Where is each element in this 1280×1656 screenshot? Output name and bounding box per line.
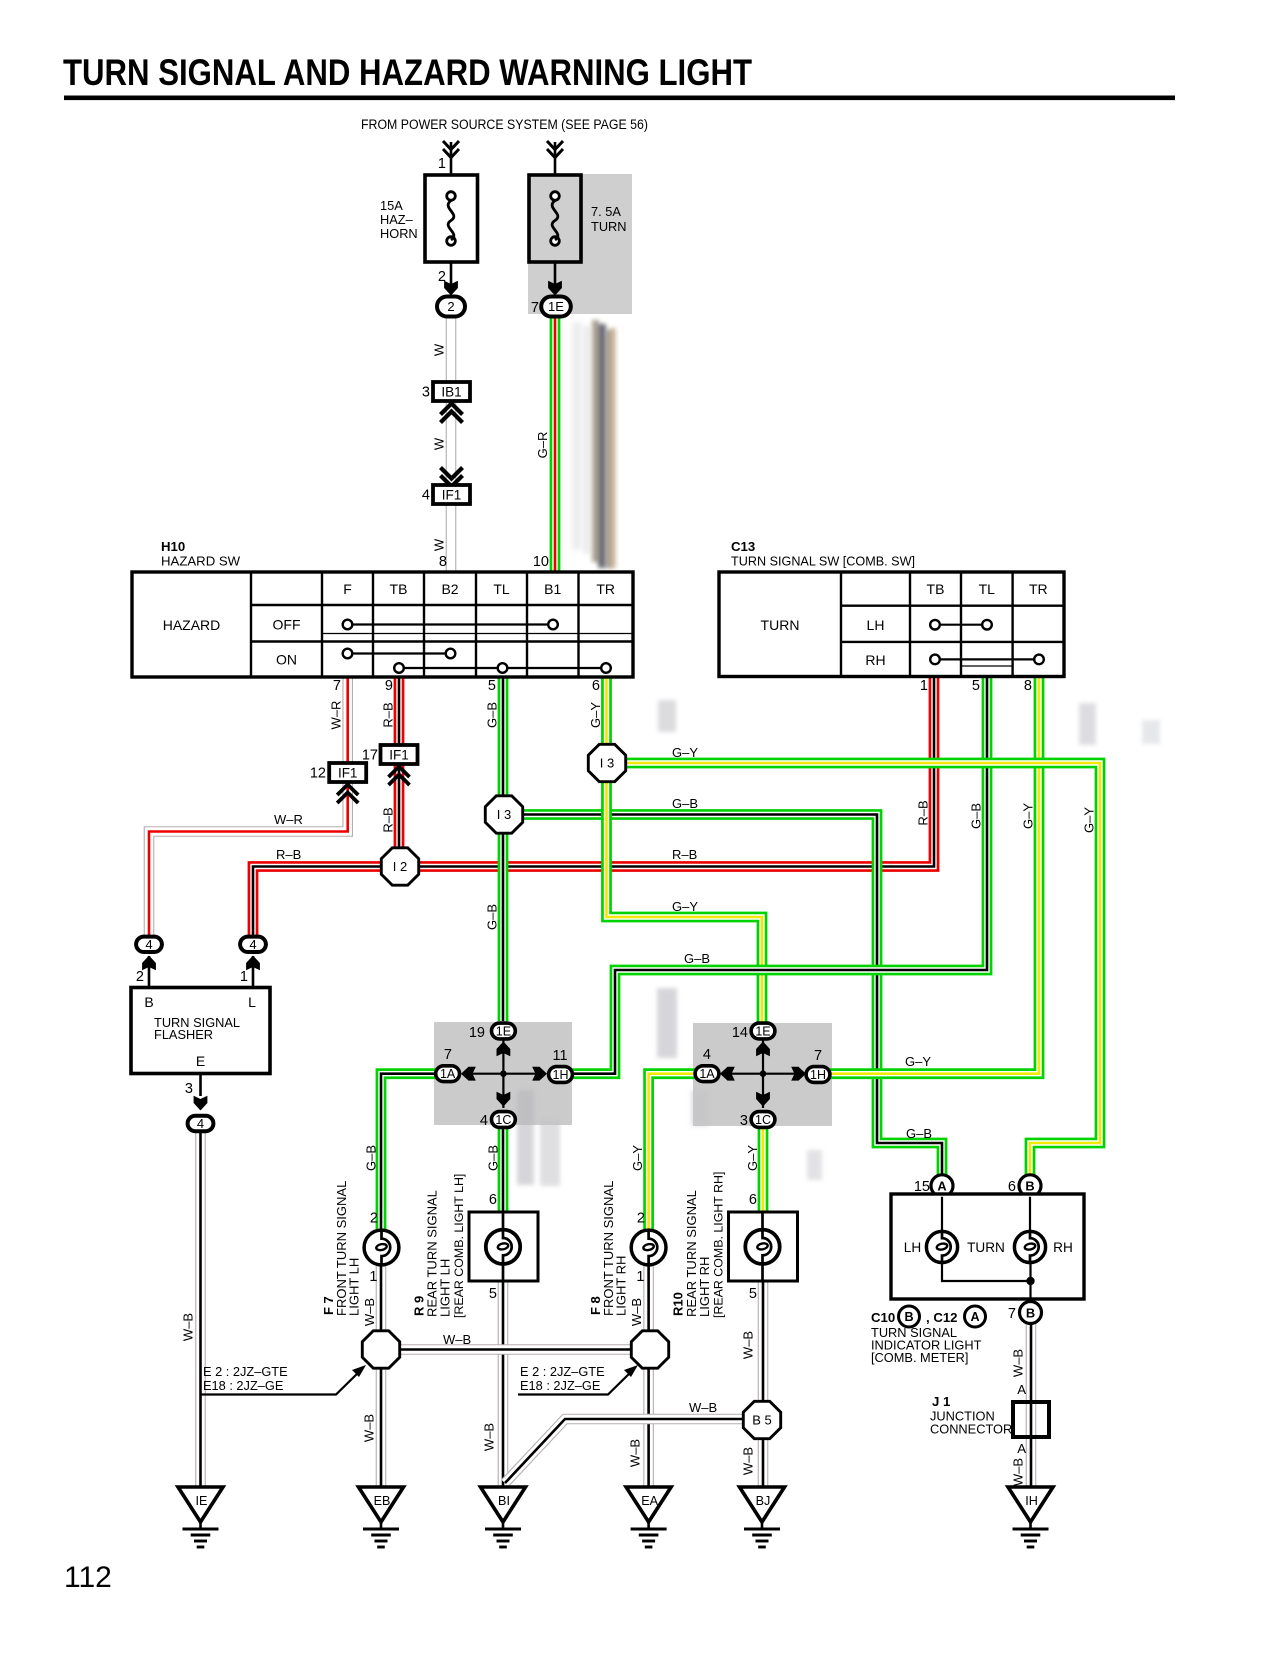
svg-text:7: 7 — [814, 1048, 822, 1064]
turn LH contact TB-TL — [935, 624, 987, 626]
svg-text:OFF: OFF — [273, 617, 301, 633]
svg-text:4: 4 — [197, 1116, 204, 1131]
svg-text:BI: BI — [498, 1494, 510, 1508]
svg-text:R–B: R–B — [276, 847, 301, 862]
svg-text:4: 4 — [422, 488, 430, 504]
ground IH — [1008, 1487, 1053, 1547]
junction I3 on G-B — [485, 796, 522, 833]
svg-text:EA: EA — [641, 1494, 658, 1508]
svg-text:W–B: W–B — [1011, 1349, 1026, 1377]
wire W-B rear turn LH to ground BI — [498, 1281, 509, 1488]
wire R-B hazard switch pin 9 to junction I2 — [394, 677, 405, 867]
svg-text:C13: C13 — [731, 539, 755, 554]
chevrons below IB1 — [441, 404, 463, 415]
svg-text:2: 2 — [447, 299, 454, 314]
hazard switch H10 table — [132, 572, 633, 677]
svg-text:14: 14 — [732, 1025, 748, 1041]
svg-text:B1: B1 — [544, 581, 561, 597]
svg-text:G–B: G–B — [364, 1145, 379, 1171]
svg-text:7. 5A: 7. 5A — [591, 204, 621, 219]
wire G-Y hazard TR through I3 down to connector 1E (right block) — [607, 677, 763, 1022]
ground connector octagon below F8 — [631, 1331, 668, 1368]
junction I2 on R-B — [381, 848, 418, 885]
wire W-B front turn RH to ground EA — [643, 1264, 654, 1488]
svg-text:LIGHT RH: LIGHT RH — [697, 1257, 712, 1317]
wire G-B connector 1H to turn signal switch TL pin 5 — [561, 677, 987, 1074]
rear turn signal light RH R10 — [671, 1172, 798, 1318]
svg-text:J 1: J 1 — [932, 1394, 950, 1409]
svg-text:G–B: G–B — [969, 803, 984, 829]
svg-text:B2: B2 — [441, 581, 458, 597]
connector oval 1E left block pin 19 — [492, 1023, 516, 1039]
meter caption C10 B , C12 A — [871, 1306, 986, 1327]
svg-text:IF1: IF1 — [389, 747, 409, 762]
svg-text:IF1: IF1 — [338, 765, 358, 780]
connector oval 1E right block pin 14 — [751, 1023, 775, 1039]
svg-text:W: W — [432, 437, 447, 450]
engine code note right — [518, 1364, 638, 1395]
rear turn signal light LH R9 — [412, 1174, 539, 1318]
svg-text:6: 6 — [592, 678, 600, 694]
svg-text:TURN: TURN — [761, 617, 800, 633]
feed arrow into fuse TURN — [547, 141, 563, 175]
fuse 15A HAZ-HORN — [380, 156, 478, 262]
svg-text:EB: EB — [374, 1494, 391, 1508]
svg-text:12: 12 — [310, 766, 326, 782]
svg-text:TURN SIGNAL SW [COMB. SW]: TURN SIGNAL SW [COMB. SW] — [731, 554, 915, 569]
wire G-Y connector 1A to front turn signal light RH — [649, 1074, 707, 1231]
svg-text:LIGHT RH: LIGHT RH — [614, 1256, 629, 1316]
svg-text:1: 1 — [438, 156, 446, 172]
connector IF1 pin 4 — [422, 485, 470, 504]
svg-text:HAZARD SW: HAZARD SW — [161, 554, 241, 569]
svg-text:11: 11 — [552, 1048, 567, 1064]
wire G-R from fuse TURN to hazard switch pin 10 — [550, 305, 561, 572]
svg-text:I 2: I 2 — [393, 859, 407, 874]
svg-text:W–B: W–B — [362, 1298, 377, 1326]
svg-text:W–B: W–B — [741, 1447, 756, 1475]
svg-text:FROM POWER SOURCE SYSTEM (SEE: FROM POWER SOURCE SYSTEM (SEE PAGE 56) — [361, 117, 648, 132]
junction connector J1 — [930, 1394, 1049, 1437]
wire W-B linking engine ground connectors — [393, 1344, 638, 1355]
connector block right cross — [720, 1040, 806, 1108]
svg-text:8: 8 — [1024, 678, 1032, 694]
svg-text:1E: 1E — [755, 1025, 770, 1039]
svg-text:G–B: G–B — [684, 951, 710, 966]
gray highlight behind 7.5A TURN fuse — [528, 174, 632, 314]
wire G-Y connector 1H to turn signal switch TR pin 8 — [818, 677, 1039, 1074]
svg-text:4: 4 — [480, 1113, 488, 1129]
svg-text:LIGHT LH: LIGHT LH — [438, 1259, 453, 1317]
svg-text:R–B: R–B — [916, 800, 931, 825]
svg-text:A: A — [970, 1310, 979, 1324]
connector oval 1C left block pin 4 — [492, 1112, 516, 1128]
svg-text:R–B: R–B — [381, 807, 396, 832]
wire G-Y junction I3 to combination meter pin B — [614, 763, 1100, 1180]
svg-text:E18 : 2JZ–GE: E18 : 2JZ–GE — [520, 1378, 600, 1393]
fuse TURN output lead pin 7 — [531, 262, 562, 316]
svg-text:4: 4 — [703, 1047, 711, 1063]
svg-text:TURN: TURN — [591, 219, 627, 234]
connector IF1 pin 17 — [362, 745, 418, 764]
svg-text:B: B — [904, 1310, 913, 1324]
svg-text:G–B: G–B — [485, 904, 500, 930]
svg-text:G–Y: G–Y — [672, 745, 698, 760]
svg-text:W–B: W–B — [1011, 1458, 1026, 1486]
svg-text:E18 : 2JZ–GE: E18 : 2JZ–GE — [203, 1378, 283, 1393]
svg-text:1E: 1E — [548, 299, 564, 314]
connector oval 2 — [437, 297, 465, 317]
flasher pin E lead to oval 4 — [185, 1074, 207, 1111]
svg-text:IF1: IF1 — [442, 487, 462, 502]
engine code note left — [201, 1364, 366, 1395]
connector block left cross — [461, 1040, 547, 1108]
junction I3 on G-Y — [588, 744, 625, 781]
svg-text:W: W — [432, 343, 447, 356]
svg-text:W–B: W–B — [629, 1298, 644, 1326]
svg-text:W–R: W–R — [274, 812, 303, 827]
ground BJ — [740, 1487, 785, 1547]
fuse 7.5A TURN — [529, 175, 627, 262]
svg-text:TB: TB — [927, 581, 945, 597]
wire W-B combination meter pin B to ground IH — [1026, 1322, 1037, 1488]
svg-text:G–Y: G–Y — [672, 899, 698, 914]
svg-text:[REAR COMB. LIGHT LH]: [REAR COMB. LIGHT LH] — [452, 1174, 466, 1318]
svg-text:1H: 1H — [553, 1068, 569, 1082]
svg-text:TB: TB — [390, 581, 408, 597]
combination meter box with turn indicator lights — [891, 1194, 1084, 1310]
connector oval 4 flasher pin L — [240, 956, 260, 988]
svg-text:3: 3 — [185, 1081, 193, 1097]
svg-text:LIGHT LH: LIGHT LH — [347, 1258, 362, 1316]
svg-text:1: 1 — [920, 678, 928, 694]
svg-text:LH: LH — [904, 1240, 921, 1255]
svg-text:HORN: HORN — [380, 226, 418, 241]
svg-text:LH: LH — [867, 617, 885, 633]
rear lamp R9 box fill — [469, 1212, 538, 1281]
svg-text:G–Y: G–Y — [745, 1145, 760, 1171]
rear lamp R10 box fill — [729, 1212, 798, 1281]
svg-text:C10: C10 — [871, 1310, 895, 1325]
wire W-R hazard switch pin 7 to flasher connector — [149, 677, 348, 940]
svg-text:G–B: G–B — [486, 1145, 501, 1171]
svg-text:IH: IH — [1025, 1494, 1038, 1508]
svg-text:F: F — [343, 581, 352, 597]
svg-text:B: B — [1025, 1179, 1034, 1194]
svg-text:W: W — [432, 538, 447, 551]
svg-text:G–Y: G–Y — [630, 1145, 645, 1171]
svg-text:5: 5 — [488, 678, 496, 694]
svg-text:TURN SIGNAL AND HAZARD WARNING: TURN SIGNAL AND HAZARD WARNING LIGHT — [63, 51, 752, 93]
svg-text:19: 19 — [469, 1025, 485, 1041]
svg-text:10: 10 — [533, 554, 549, 570]
wire G-Y connector 1C to rear turn signal light RH — [758, 1117, 769, 1212]
svg-text:TL: TL — [493, 581, 510, 597]
svg-text:1: 1 — [369, 1269, 377, 1285]
meter pin 7 B below — [1008, 1302, 1042, 1324]
chevrons above IF1 — [441, 468, 463, 479]
turn signal switch C13 table — [719, 572, 1064, 677]
svg-text:E: E — [196, 1053, 205, 1069]
wire W-B rear turn RH through B5 to ground BJ — [758, 1281, 769, 1488]
svg-text:W–R: W–R — [329, 701, 344, 730]
connector oval 1E top — [541, 297, 571, 317]
svg-text:1E: 1E — [496, 1025, 511, 1039]
svg-text:RH: RH — [865, 652, 885, 668]
meter pin 6 B — [1008, 1175, 1041, 1197]
svg-text:7: 7 — [1008, 1306, 1016, 1322]
junction connector B5 — [743, 1401, 780, 1438]
svg-text:5: 5 — [489, 1286, 497, 1302]
svg-text:G–Y: G–Y — [1082, 807, 1097, 833]
svg-text:BJ: BJ — [756, 1494, 771, 1508]
svg-text:B: B — [1026, 1305, 1035, 1320]
svg-text:I 3: I 3 — [600, 756, 614, 771]
svg-text:1A: 1A — [699, 1067, 715, 1081]
wire W from fuse HAZ-HORN to hazard switch pin 8 — [446, 305, 457, 572]
wire G-B from junction I3 to combination meter pin A — [510, 815, 942, 1181]
wire G-B connector 1C to rear turn signal light LH — [498, 1117, 509, 1212]
connector oval 4 flasher pin B — [136, 956, 156, 988]
svg-text:1A: 1A — [440, 1067, 456, 1081]
svg-text:G–B: G–B — [906, 1126, 932, 1141]
svg-text:4: 4 — [249, 937, 256, 952]
connector oval 1H left block pin 11 — [549, 1067, 573, 1083]
svg-text:A: A — [1017, 1441, 1026, 1456]
wire G-B connector 1A to front turn signal light LH — [381, 1074, 447, 1231]
gray pad of connector block 1E/1A/1H/1C (right) — [693, 1023, 832, 1126]
gray pad of connector block 1E/1A/1H/1C (left) — [434, 1022, 572, 1125]
svg-text:ON: ON — [276, 652, 297, 668]
front turn signal light RH F8 — [588, 1181, 666, 1316]
svg-text:3: 3 — [422, 385, 430, 401]
svg-text:3: 3 — [740, 1113, 748, 1129]
ground BI — [481, 1487, 526, 1547]
svg-text:G–B: G–B — [485, 702, 500, 728]
svg-text:TURN: TURN — [967, 1240, 1005, 1255]
svg-text:RH: RH — [1053, 1240, 1073, 1255]
svg-text:G–Y: G–Y — [1021, 803, 1036, 829]
hazard ON contact TB-TL-TR — [399, 667, 606, 669]
svg-text:TL: TL — [979, 581, 996, 597]
svg-text:, C12: , C12 — [926, 1310, 958, 1325]
svg-text:7: 7 — [333, 678, 341, 694]
svg-text:6: 6 — [749, 1192, 757, 1208]
svg-text:6: 6 — [489, 1192, 497, 1208]
ground connector octagon below F7 — [362, 1331, 399, 1368]
svg-text:L: L — [248, 994, 256, 1010]
svg-text:2: 2 — [136, 969, 144, 985]
feed arrow into fuse HAZ-HORN — [443, 141, 459, 175]
svg-text:1C: 1C — [495, 1113, 511, 1127]
ground EB — [359, 1487, 404, 1547]
svg-text:1: 1 — [240, 969, 248, 985]
front turn signal light LH F7 — [321, 1181, 399, 1316]
ground IE — [178, 1487, 223, 1547]
svg-text:R–B: R–B — [672, 847, 697, 862]
svg-text:I 3: I 3 — [497, 807, 511, 822]
svg-text:A: A — [937, 1179, 946, 1194]
svg-text:2: 2 — [637, 1211, 645, 1227]
svg-text:G–Y: G–Y — [588, 702, 603, 728]
scan smudges — [517, 320, 1160, 1186]
svg-text:2: 2 — [370, 1211, 378, 1227]
connector IF1 pin 12 — [310, 763, 366, 782]
svg-text:H10: H10 — [161, 539, 185, 554]
svg-text:W–B: W–B — [482, 1423, 497, 1451]
ground EA — [626, 1487, 671, 1547]
meter pin 15 A — [914, 1175, 953, 1197]
svg-text:[REAR COMB. LIGHT RH]: [REAR COMB. LIGHT RH] — [712, 1172, 726, 1318]
svg-text:W–B: W–B — [741, 1331, 756, 1359]
turn signal flasher box — [131, 988, 270, 1074]
svg-text:15A: 15A — [380, 198, 403, 213]
svg-text:5: 5 — [972, 678, 980, 694]
connector oval 1A left block pin 7 — [436, 1066, 460, 1082]
connector oval 1A right block pin 4 — [695, 1066, 719, 1082]
svg-text:1H: 1H — [810, 1068, 826, 1082]
svg-text:[COMB. METER]: [COMB. METER] — [871, 1350, 968, 1365]
svg-text:9: 9 — [385, 678, 393, 694]
svg-text:G–B: G–B — [672, 796, 698, 811]
svg-text:CONNECTOR: CONNECTOR — [930, 1422, 1012, 1437]
svg-text:TR: TR — [596, 581, 615, 597]
turn RH contact TB-TR — [935, 658, 1039, 660]
svg-text:112: 112 — [64, 1561, 112, 1594]
fuse output pin 2 lead — [438, 262, 458, 296]
wire W-B front turn LH to ground EB — [376, 1264, 387, 1488]
svg-text:4: 4 — [145, 937, 152, 952]
svg-text:E 2 : 2JZ–GTE: E 2 : 2JZ–GTE — [520, 1364, 605, 1379]
svg-text:1C: 1C — [755, 1113, 771, 1127]
svg-text:A: A — [1017, 1382, 1026, 1397]
svg-text:B: B — [144, 994, 153, 1010]
svg-text:W–B: W–B — [689, 1400, 717, 1415]
svg-text:W–B: W–B — [362, 1414, 377, 1442]
svg-text:W–B: W–B — [628, 1439, 643, 1467]
hazard OFF contact F-B1 — [348, 623, 554, 625]
svg-text:IB1: IB1 — [441, 384, 461, 399]
svg-text:G–R: G–R — [535, 432, 550, 459]
svg-text:E 2 : 2JZ–GTE: E 2 : 2JZ–GTE — [203, 1364, 288, 1379]
wire R-B turn signal switch pin 1 through I2 to flasher L — [253, 677, 934, 940]
connector oval 1C right block pin 3 — [751, 1112, 775, 1128]
svg-text:8: 8 — [439, 554, 447, 570]
svg-text:FLASHER: FLASHER — [154, 1027, 213, 1042]
svg-text:W–B: W–B — [181, 1313, 196, 1341]
svg-text:7: 7 — [531, 300, 539, 316]
connector oval 1H right block pin 7 — [806, 1067, 830, 1083]
svg-text:G–Y: G–Y — [905, 1054, 931, 1069]
svg-text:W–B: W–B — [443, 1332, 471, 1347]
svg-text:HAZARD: HAZARD — [163, 617, 221, 633]
svg-text:1: 1 — [636, 1269, 644, 1285]
hazard ON contact F-B2 — [348, 652, 451, 654]
svg-text:7: 7 — [444, 1047, 452, 1063]
connector IB1 — [422, 382, 470, 401]
svg-text:R–B: R–B — [381, 702, 396, 727]
svg-text:2: 2 — [438, 269, 446, 285]
svg-text:TR: TR — [1029, 581, 1048, 597]
wire W-B flasher E to ground IE — [195, 1132, 206, 1488]
svg-text:B 5: B 5 — [752, 1413, 772, 1428]
wire G-B hazard TL down to connector 1E (left block) — [498, 677, 509, 1021]
svg-text:IE: IE — [196, 1494, 208, 1508]
wire W-B from B5 to ground BI branch — [505, 1419, 746, 1483]
svg-text:5: 5 — [749, 1286, 757, 1302]
svg-text:HAZ–: HAZ– — [380, 212, 414, 227]
